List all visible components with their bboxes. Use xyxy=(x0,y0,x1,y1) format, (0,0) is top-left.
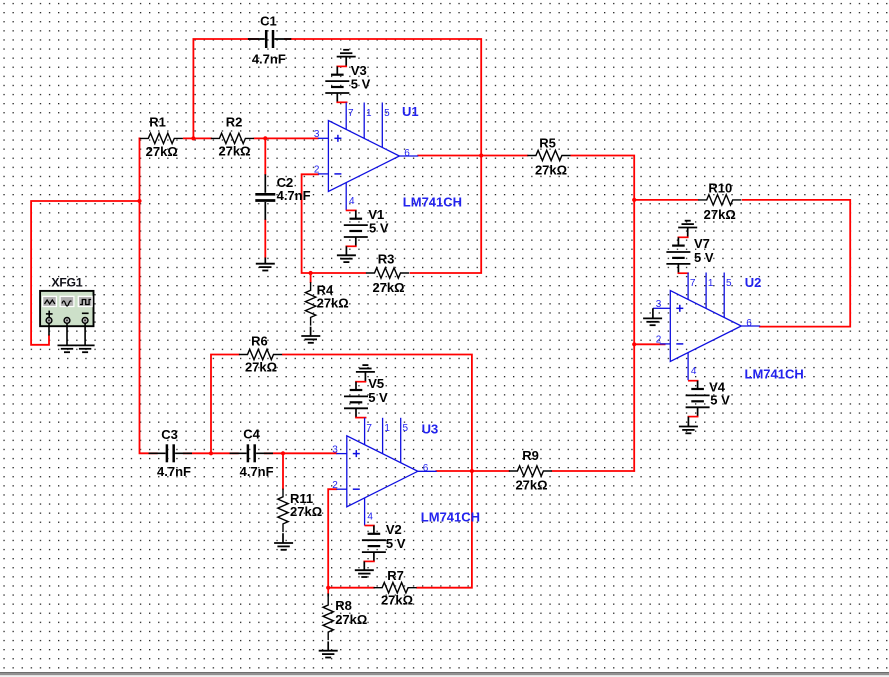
node C4/R11/pin3 xyxy=(281,451,285,455)
wire U1 pin2 to R3/R4 node xyxy=(302,174,366,273)
ground below C2 xyxy=(256,258,275,271)
svg-text:R1: R1 xyxy=(149,115,166,130)
svg-text:R10: R10 xyxy=(708,181,732,196)
svg-text:4.7nF: 4.7nF xyxy=(252,52,286,67)
wire C1 right to U1 output loop xyxy=(285,39,481,273)
wire R6 loop around U3 xyxy=(211,355,472,588)
wire R10 row from U2 pin2 column xyxy=(634,199,697,201)
wire U3 output to R9 xyxy=(436,470,634,472)
svg-text:1: 1 xyxy=(366,108,372,119)
wire C2 bottom to ground xyxy=(264,220,266,258)
svg-text:XFG1: XFG1 xyxy=(51,276,83,290)
resistor R4 with ground xyxy=(301,282,348,343)
svg-text:7: 7 xyxy=(690,278,696,289)
svg-text:27kΩ: 27kΩ xyxy=(535,163,567,178)
svg-text:27kΩ: 27kΩ xyxy=(290,504,322,519)
svg-text:4: 4 xyxy=(691,366,697,377)
wire R2 right to U1 pin3 with C2 branch xyxy=(254,138,317,174)
svg-text:5 V: 5 V xyxy=(694,250,714,265)
svg-text:4.7nF: 4.7nF xyxy=(277,188,311,203)
svg-text:3: 3 xyxy=(332,444,338,455)
capacitor C3 xyxy=(149,427,192,479)
svg-text:C3: C3 xyxy=(161,427,178,442)
function generator XFG1 xyxy=(40,276,93,326)
svg-text:27kΩ: 27kΩ xyxy=(218,144,250,159)
capacitor C1 xyxy=(248,13,291,66)
wire R10 right around U2 output xyxy=(743,200,851,327)
svg-text:R3: R3 xyxy=(378,252,395,267)
capacitor C2 xyxy=(255,174,310,220)
svg-text:5: 5 xyxy=(403,423,409,434)
node R1/R2/C1 xyxy=(191,136,195,140)
svg-text:7: 7 xyxy=(348,108,354,119)
resistor R6 xyxy=(239,333,282,374)
svg-text:5 V: 5 V xyxy=(710,393,730,408)
wire R1 right to R2 left with C1 branch xyxy=(184,39,258,138)
svg-text:R8: R8 xyxy=(335,598,352,613)
resistor R1 xyxy=(140,115,183,160)
svg-text:5: 5 xyxy=(726,278,732,289)
svg-text:5 V: 5 V xyxy=(351,77,371,92)
svg-text:V2: V2 xyxy=(386,522,402,537)
svg-text:27kΩ: 27kΩ xyxy=(335,612,367,627)
op-amp U3 xyxy=(332,418,436,526)
ground on U2 pin3 xyxy=(643,308,662,325)
svg-text:27kΩ: 27kΩ xyxy=(515,478,547,493)
node XFG wire junction xyxy=(137,199,141,203)
svg-text:3: 3 xyxy=(314,129,320,140)
svg-text:27kΩ: 27kΩ xyxy=(381,593,413,608)
svg-text:C1: C1 xyxy=(260,13,277,28)
op-amp U2 xyxy=(656,273,760,381)
resistor R10 xyxy=(698,181,741,223)
node R3/R4/pin2 xyxy=(309,271,313,275)
ground on XFG1 common terminal xyxy=(58,323,77,352)
battery V4 below U2 with ground xyxy=(679,380,730,434)
capacitor C4 xyxy=(230,427,274,480)
svg-text:C4: C4 xyxy=(243,427,260,442)
svg-text:R2: R2 xyxy=(226,115,243,130)
battery V1 below U1 with ground xyxy=(337,207,389,262)
svg-text:4.7nF: 4.7nF xyxy=(157,464,191,479)
svg-text:LM741CH: LM741CH xyxy=(421,510,480,525)
resistor R3 xyxy=(366,252,409,296)
wire U3 pin2 to R7/R8 node xyxy=(328,489,374,588)
node R7/R8/pin2 of U3 xyxy=(326,586,330,590)
ground on XFG1 minus terminal xyxy=(76,323,95,352)
svg-text:6: 6 xyxy=(423,463,429,474)
battery V3 with ground on top xyxy=(325,50,370,103)
svg-text:1: 1 xyxy=(384,423,390,434)
svg-text:5 V: 5 V xyxy=(369,221,389,236)
svg-text:5 V: 5 V xyxy=(386,536,406,551)
svg-text:4: 4 xyxy=(367,511,373,522)
wire U1 output to R5 and down to U2 pin2 column xyxy=(418,156,634,471)
svg-text:27kΩ: 27kΩ xyxy=(317,296,349,311)
svg-text:6: 6 xyxy=(404,148,410,159)
resistor R7 xyxy=(374,568,417,608)
svg-text:LM741CH: LM741CH xyxy=(403,195,462,210)
wire C3 right to C4 left xyxy=(184,452,238,454)
svg-text:7: 7 xyxy=(366,423,372,434)
resistor R9 xyxy=(509,448,552,493)
battery V7 with ground on top above U2 xyxy=(666,221,713,274)
node U3 output / R6 loop xyxy=(470,469,474,473)
wire U2 pin2 stub xyxy=(634,343,664,345)
svg-text:2: 2 xyxy=(314,165,320,176)
svg-text:U2: U2 xyxy=(745,275,762,290)
node U1 output / C1 loop xyxy=(479,153,483,157)
resistor R2 xyxy=(211,115,254,159)
svg-text:4: 4 xyxy=(349,196,355,207)
svg-text:5: 5 xyxy=(384,108,390,119)
node C3/C4/R6 xyxy=(209,451,213,455)
bottom gray bar xyxy=(0,672,889,677)
svg-text:1: 1 xyxy=(708,278,714,289)
svg-text:R9: R9 xyxy=(522,448,539,463)
node U2 pin2 xyxy=(632,342,636,346)
svg-text:27kΩ: 27kΩ xyxy=(704,207,736,222)
svg-text:R6: R6 xyxy=(251,333,268,348)
svg-text:LM741CH: LM741CH xyxy=(745,367,804,382)
battery V2 below U3 with ground xyxy=(355,522,406,577)
svg-text:27kΩ: 27kΩ xyxy=(146,144,178,159)
svg-text:U3: U3 xyxy=(422,422,439,437)
battery V5 with ground on top xyxy=(344,365,388,418)
svg-text:V7: V7 xyxy=(694,236,710,251)
wire R4 stub xyxy=(310,273,312,282)
svg-text:2: 2 xyxy=(656,335,662,346)
svg-text:27kΩ: 27kΩ xyxy=(372,280,404,295)
wire XFG1 plus lead xyxy=(48,323,50,336)
svg-text:27kΩ: 27kΩ xyxy=(245,359,277,374)
resistor R11 with ground xyxy=(274,489,322,550)
svg-text:6: 6 xyxy=(746,318,752,329)
svg-text:V5: V5 xyxy=(368,376,384,391)
wire C4 right to U3 pin3 with R11 branch xyxy=(265,453,337,488)
wire XFG1 plus terminal to R1/C3 net xyxy=(31,138,157,453)
svg-text:R5: R5 xyxy=(539,136,556,151)
svg-text:U1: U1 xyxy=(402,104,419,119)
node U2 pin2 column to R10 xyxy=(632,198,636,202)
svg-text:4.7nF: 4.7nF xyxy=(240,464,274,479)
node R2/C2/pin3 xyxy=(263,136,267,140)
resistor R5 xyxy=(527,136,570,178)
svg-text:R7: R7 xyxy=(387,568,404,583)
svg-text:2: 2 xyxy=(332,480,338,491)
svg-text:5 V: 5 V xyxy=(368,390,388,405)
op-amp U1 xyxy=(314,103,418,211)
resistor R8 with ground xyxy=(319,588,368,658)
